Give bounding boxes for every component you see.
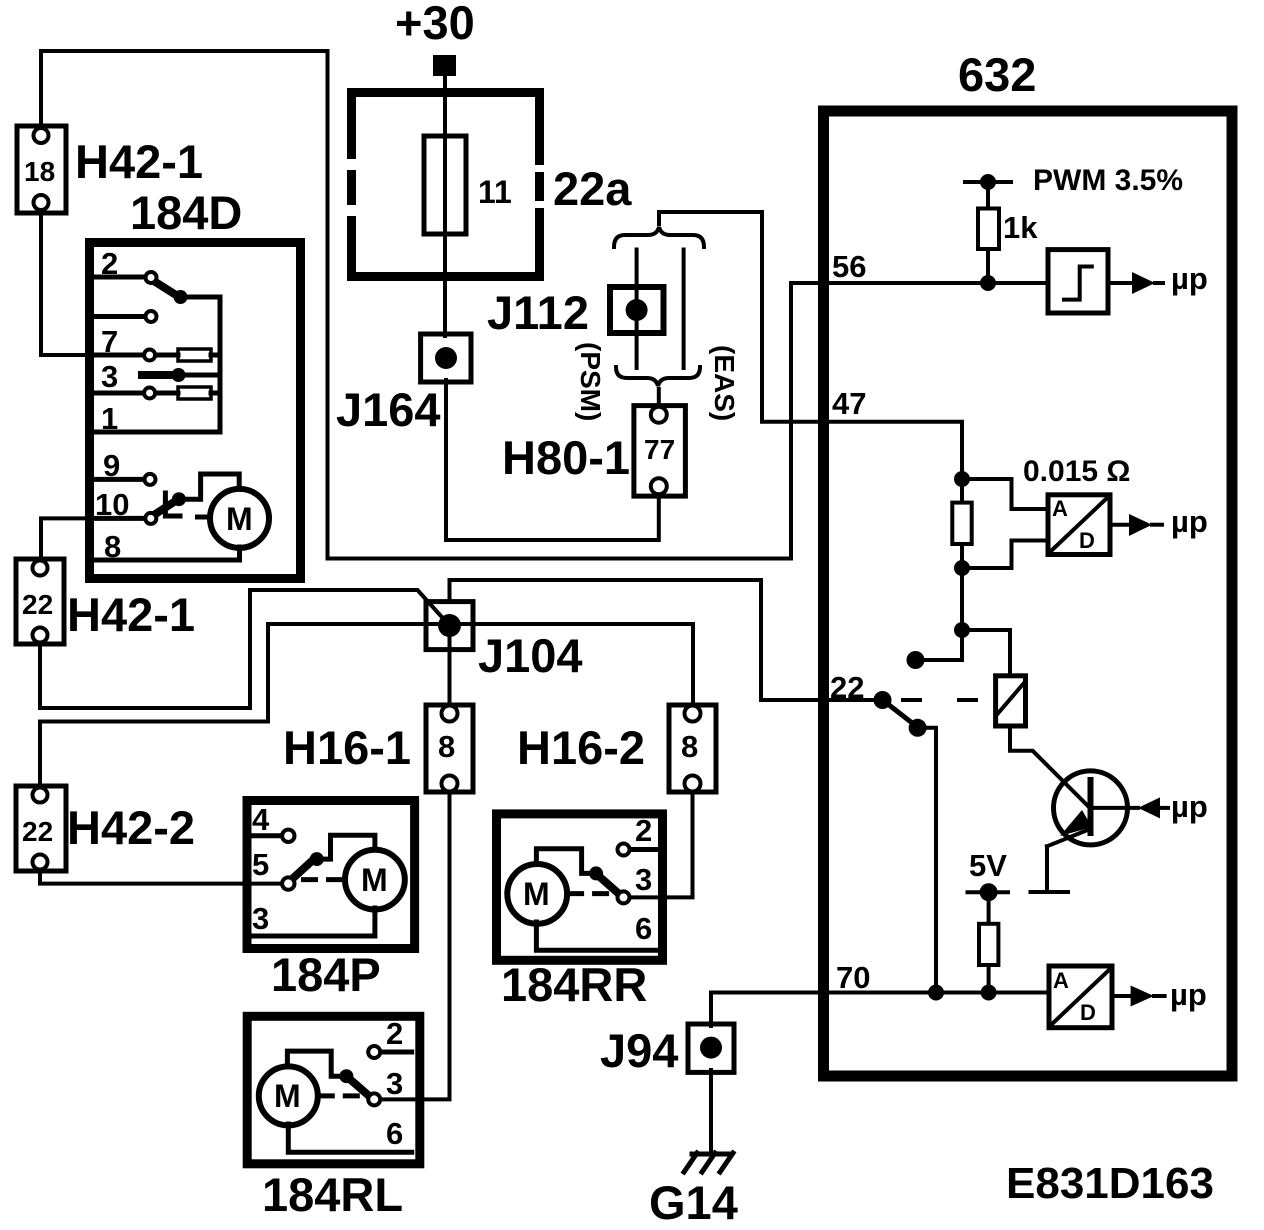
sunroof motor 184P box	[247, 801, 415, 949]
arrow to uP (A/D upper)	[1110, 523, 1131, 527]
wire: J104 line right down to H16-2	[691, 624, 695, 707]
184P pin circles	[282, 830, 294, 842]
wire: bracket from braces to pin 47 of 632	[659, 212, 962, 479]
svg-text:(PSM): (PSM)	[575, 342, 606, 421]
184RR pin circles	[618, 844, 630, 856]
fuse box 22a right dashed edge	[535, 88, 544, 281]
svg-text:22: 22	[830, 670, 864, 705]
connector H42-1 pin 22	[16, 559, 64, 644]
184D motor M	[210, 489, 269, 548]
184P pin 4 line	[251, 833, 283, 838]
svg-text:H80-1: H80-1	[502, 431, 630, 484]
184P dashed link	[301, 877, 345, 882]
arrow from uP to base	[1091, 806, 1139, 810]
184D inner bus vertical	[218, 297, 223, 432]
svg-text:3: 3	[386, 1066, 403, 1101]
svg-text:D: D	[1079, 528, 1095, 553]
splice J112	[610, 287, 664, 333]
svg-text:J112: J112	[487, 286, 589, 339]
rear-left motor 184RL box	[247, 1016, 420, 1164]
184RR motor M	[507, 864, 567, 924]
wire: EAS vertical	[682, 250, 686, 369]
184D second throw line	[94, 314, 145, 319]
184D dash to motor	[195, 515, 209, 520]
svg-text:PWM 3.5%: PWM 3.5%	[1033, 164, 1183, 197]
svg-text:18: 18	[24, 156, 55, 187]
184D pin contact circles	[146, 272, 157, 283]
wire: J104 line to H42-2 pin22 top	[40, 624, 693, 789]
svg-text:56: 56	[832, 249, 866, 284]
wire: J94 down to ground G14	[709, 1070, 713, 1153]
svg-text:9: 9	[103, 448, 120, 483]
svg-text:D: D	[1080, 1000, 1096, 1025]
184RR blade to motor wire	[536, 849, 596, 874]
svg-text:(EAS): (EAS)	[709, 345, 740, 421]
door motor unit 184D box	[90, 243, 301, 579]
svg-text:J94: J94	[600, 1024, 678, 1077]
svg-text:µp: µp	[1170, 977, 1207, 1012]
wire: H42-2 pin22 bottom to 184P pin 5	[40, 869, 283, 884]
arrow to uP (A/D lower)	[1112, 994, 1132, 998]
ground G14 symbol	[692, 1152, 731, 1157]
184RL dashed link	[318, 1093, 363, 1098]
shunt sense wires to A/D	[962, 479, 1048, 509]
184P blade to motor wire	[317, 835, 375, 859]
svg-text:A: A	[1052, 496, 1068, 521]
PWM rail	[965, 180, 1011, 184]
svg-text:22: 22	[22, 816, 53, 847]
184D switch blade pin 10	[157, 502, 174, 513]
svg-text:0.015 Ω: 0.015 Ω	[1023, 455, 1130, 488]
relay coil / sensor element	[996, 676, 1026, 726]
svg-text:M: M	[523, 876, 550, 912]
svg-text:8: 8	[438, 729, 455, 764]
splice J94	[688, 1024, 734, 1072]
svg-text:2: 2	[101, 246, 118, 281]
svg-text:77: 77	[644, 434, 675, 465]
184D pin 9 line	[94, 477, 144, 482]
svg-text:G14: G14	[649, 1176, 738, 1229]
184D pin 8 line	[94, 547, 240, 560]
splice J164	[421, 334, 471, 382]
connector H16-2 pin 8	[669, 705, 716, 792]
splice J104	[426, 602, 473, 650]
connector H42-2 pin 22	[16, 786, 66, 871]
wire: H16-1 down to 184RL pin 3	[380, 790, 450, 1099]
svg-text:47: 47	[832, 386, 866, 421]
shunt resistor 0.015 ohm	[960, 479, 964, 660]
wire: +30 feed through fuse 11 to J164	[443, 74, 447, 336]
184D resistor lower row	[94, 391, 145, 396]
svg-text:H42-1: H42-1	[67, 588, 195, 641]
184D wire dot to motor	[179, 474, 239, 499]
svg-text:6: 6	[635, 911, 652, 946]
184D pin 2 line	[94, 275, 145, 280]
svg-text:8: 8	[681, 729, 698, 764]
svg-text:10: 10	[95, 487, 129, 522]
wire: H80-1 top tick to lower brace	[657, 389, 661, 410]
svg-text:E831D163: E831D163	[1006, 1159, 1214, 1208]
transistor Q1 collector lead	[1010, 726, 1089, 807]
switch output down to 70 line	[918, 728, 936, 993]
184D resistor upper	[178, 349, 211, 361]
svg-text:M: M	[226, 501, 253, 537]
dashed actuator link (22)	[901, 698, 982, 702]
184RR dashed link	[567, 891, 612, 896]
wire: H16-2 down to 184RR pin 3	[629, 790, 693, 897]
184RR switch blade	[601, 878, 618, 893]
svg-text:4: 4	[252, 802, 270, 837]
wire: J94 up to pin 70 line of 632	[711, 993, 1049, 1027]
wire: 184D pin 10 to H42-1 pin22 top	[41, 518, 100, 562]
svg-text:M: M	[361, 862, 388, 898]
svg-text:8: 8	[104, 529, 121, 564]
5V pull-up resistor	[987, 892, 991, 992]
svg-text:H16-1: H16-1	[283, 721, 411, 774]
svg-text:1: 1	[101, 401, 118, 436]
svg-text:1k: 1k	[1003, 210, 1038, 245]
svg-text:184RL: 184RL	[262, 1168, 403, 1221]
contact stub	[907, 651, 925, 669]
184RL pin circles	[368, 1046, 380, 1058]
fuse box 22a top edge	[347, 88, 544, 97]
node 56 junction	[980, 275, 996, 291]
184RL blade to motor wire	[287, 1051, 346, 1076]
svg-text:µp: µp	[1171, 504, 1208, 539]
184RR pin 6 line	[536, 922, 659, 950]
svg-text:J104: J104	[478, 629, 583, 682]
A/D converter upper	[1048, 495, 1110, 555]
svg-text:3: 3	[635, 862, 652, 897]
184RR pin 2 line	[629, 847, 659, 852]
wire: H42-1 pin18 bottom to 184D pin 7	[41, 207, 100, 355]
svg-text:+30: +30	[395, 0, 475, 49]
184RL pin 6 line	[288, 1124, 411, 1152]
svg-text:184RR: 184RR	[501, 958, 647, 1011]
junction dots on 70 line	[928, 985, 944, 1001]
switch blade (22)	[884, 701, 916, 726]
svg-text:184P: 184P	[271, 948, 381, 1001]
svg-text:70: 70	[836, 960, 870, 995]
svg-text:6: 6	[386, 1116, 403, 1151]
svg-text:11: 11	[478, 174, 512, 210]
5V rail	[968, 890, 1009, 894]
svg-text:2: 2	[635, 813, 652, 848]
wire: H42-1 pin18 top to +feed, across top, down and to pin 56 of 632	[41, 51, 1048, 559]
184D switch blade pin 2	[157, 283, 176, 295]
svg-text:3: 3	[101, 359, 118, 394]
svg-text:H42-2: H42-2	[67, 801, 195, 854]
fuse box 22a bottom edge	[347, 272, 544, 281]
svg-text:3: 3	[252, 901, 269, 936]
svg-text:5: 5	[252, 847, 269, 882]
wire: J164 to H80-1 pin 77 bottom	[446, 380, 659, 540]
node to relay branch	[954, 622, 970, 638]
transistor emitter with arrow	[1047, 829, 1090, 846]
svg-text:22: 22	[22, 589, 53, 620]
fuse box 22a left dashed edge	[347, 88, 356, 281]
svg-text:H42-1: H42-1	[75, 135, 203, 188]
184D pin 10 line	[94, 516, 145, 521]
184P pin 3 line	[251, 908, 375, 936]
184RL pin 2 line	[380, 1050, 412, 1055]
svg-text:2: 2	[386, 1016, 403, 1051]
A/D converter lower	[1049, 966, 1112, 1028]
arrow to uP (56)	[1108, 281, 1134, 285]
184D limit stop symbol	[165, 493, 180, 516]
svg-text:M: M	[274, 1078, 301, 1114]
svg-text:J164: J164	[336, 383, 441, 436]
fuse 11 element	[424, 136, 466, 234]
comparator U1	[1048, 250, 1108, 313]
connector H80-1 pin 77	[634, 406, 686, 497]
svg-text:632: 632	[958, 48, 1036, 101]
svg-text:A: A	[1053, 968, 1069, 993]
lower curly brace under PSM/EAS	[616, 367, 700, 386]
+30 supply terminal	[433, 55, 456, 76]
svg-text:µp: µp	[1171, 261, 1208, 296]
connector H42-1 pin 18	[17, 126, 66, 213]
control unit 632 box	[824, 111, 1233, 1076]
connector H16-1 pin 8	[426, 705, 473, 792]
184RL motor M	[259, 1066, 318, 1125]
wire: J104 up to pin 22 of 632	[450, 580, 883, 700]
184D pin 1 line	[94, 430, 220, 435]
184D pin 7 line	[94, 353, 144, 358]
pin 22 switch common dot	[874, 691, 892, 709]
upper curly brace over PSM/EAS	[614, 227, 704, 247]
svg-text:184D: 184D	[130, 186, 242, 239]
184D wire dot to bus	[181, 295, 221, 300]
svg-text:7: 7	[101, 324, 118, 359]
184D pin 3 closed contact bar	[142, 371, 172, 379]
svg-text:µp: µp	[1171, 789, 1208, 824]
transistor Q1	[1054, 771, 1128, 845]
wire: J104 down to H16-1	[448, 626, 452, 708]
rear-right motor 184RR box	[497, 814, 663, 960]
wire: J112 PSM vertical	[635, 250, 639, 369]
svg-text:22a: 22a	[553, 162, 632, 215]
emitter ground bar	[1031, 890, 1069, 894]
184RL switch blade	[352, 1081, 368, 1095]
svg-text:5V: 5V	[969, 848, 1007, 883]
wire: H42-1 pin22 bottom to splice J104	[40, 590, 450, 708]
184P motor M	[345, 850, 405, 910]
1k resistor	[986, 182, 990, 283]
184D blade contact dot	[174, 290, 188, 304]
svg-text:H16-2: H16-2	[517, 721, 645, 774]
184P switch blade	[290, 859, 314, 881]
